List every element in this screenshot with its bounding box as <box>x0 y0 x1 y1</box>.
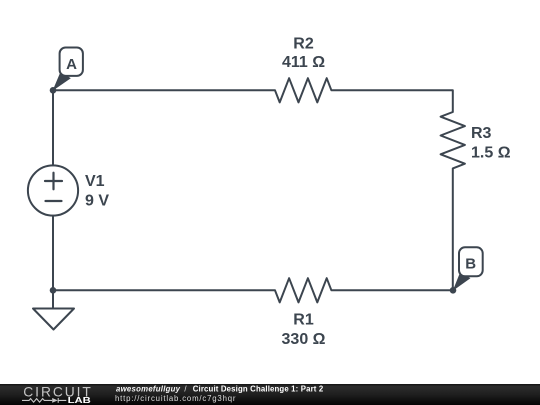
svg-text:1.5 Ω: 1.5 Ω <box>471 145 511 162</box>
svg-text:411 Ω: 411 Ω <box>282 54 325 71</box>
svg-text:awesomefullguy / Circuit Desig: awesomefullguy / Circuit Design Challeng… <box>116 384 324 393</box>
svg-text:R1: R1 <box>293 311 314 328</box>
svg-text:R3: R3 <box>471 125 492 142</box>
svg-text:V1: V1 <box>85 173 105 190</box>
svg-text:9 V: 9 V <box>85 193 109 210</box>
svg-text:A: A <box>66 56 77 73</box>
svg-text:http://circuitlab.com/c7g3hqr: http://circuitlab.com/c7g3hqr <box>115 394 236 403</box>
svg-text:B: B <box>465 256 476 273</box>
svg-text:R2: R2 <box>293 36 314 53</box>
svg-text:330 Ω: 330 Ω <box>282 331 326 348</box>
svg-text:LAB: LAB <box>68 396 92 405</box>
